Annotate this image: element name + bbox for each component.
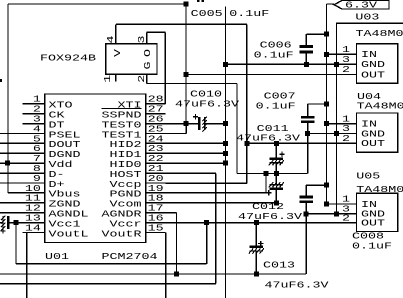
U04 pin IN name (361, 118, 377, 129)
osc pin 3 number (136, 35, 147, 43)
U04 pin 2 stub (337, 142, 357, 144)
svg-text:47uF6.3V: 47uF6.3V (236, 133, 300, 144)
capacitor C010 plate left (198, 117, 200, 130)
pin 11 name ZGND (49, 199, 81, 210)
wire U03 IN (327, 53, 357, 55)
pin 11 number (25, 193, 41, 204)
junction C006 gnd (304, 62, 309, 67)
wire bus2 (0, 273, 306, 275)
wire U05 IN (327, 203, 357, 205)
capacitor C011 label (257, 123, 289, 134)
capacitor C011 plate bottom hatched (269, 160, 284, 165)
junction C014 col16 (14, 220, 19, 225)
pin 1 number (33, 94, 41, 105)
wire C014 to pin13 (8, 222, 45, 224)
regulator U03 value TA48M03 (356, 28, 403, 39)
svg-text:0.1uF: 0.1uF (256, 101, 296, 112)
pin 19 name PGND (110, 189, 142, 200)
U04 pin 3 number (342, 123, 350, 134)
capacitor C005 value (229, 8, 269, 19)
pin 6 name DGND (49, 149, 81, 160)
junction top rail to 3.3V column (184, 2, 189, 7)
wire 6.3V column (326, 4, 328, 204)
wire top rail (8, 3, 186, 5)
wire TEST0 to C010 (165, 123, 199, 125)
wire osc VDD up-over (116, 23, 247, 25)
wire C011 bottom lead (275, 163, 277, 174)
wire osc VDD down col (246, 24, 248, 143)
regulator U05 refdes (356, 170, 380, 181)
capacitor C010 plate right hatched (202, 117, 206, 132)
U03 pin 2 stub (337, 74, 357, 76)
wire gnd entry from right edge (336, 22, 403, 24)
pin 27 number (148, 104, 164, 115)
pin 15 number (148, 222, 164, 233)
U05 pin 3 stub (337, 213, 357, 215)
wire to Vbus pin10 (8, 192, 45, 194)
pin 21 stub (146, 172, 166, 174)
pin 27 stub (146, 113, 166, 115)
capacitor C013 plus (258, 241, 263, 246)
U05 pin 1 number (342, 194, 350, 205)
wire C012 bottom lead (275, 189, 277, 203)
pin 9 number (33, 173, 41, 184)
wire DGND from left edge (0, 152, 23, 154)
svg-text:C013: C013 (263, 260, 295, 271)
osc pin 4 number (105, 35, 116, 43)
svg-text:TA48M03: TA48M03 (356, 28, 403, 39)
pin 24 name HID2 (110, 139, 142, 150)
junction 6.3V U03 IN (324, 52, 329, 57)
wire U04 gnd link down (307, 134, 309, 174)
junction 6.3V U04 IN (324, 121, 329, 126)
wire DOUT from left edge (0, 142, 23, 144)
pin 5 name DOUT (49, 139, 81, 150)
wire gnd column 336 (336, 23, 338, 214)
pin 17 number (148, 203, 164, 214)
osc pin 1 number (102, 74, 113, 82)
pin 20 number (148, 173, 164, 184)
pin 23 number (148, 143, 164, 154)
osc pin 2 number (136, 74, 147, 82)
junction C008 u05gnd (304, 211, 309, 216)
svg-text:OUT: OUT (361, 138, 385, 149)
wire bus3 (0, 283, 216, 285)
pin 10 name Vbus (49, 189, 81, 200)
capacitor C012 label (252, 201, 284, 212)
wire VoutL down (26, 233, 28, 298)
capacitor C012 value (238, 211, 302, 222)
wire 3.3V column (185, 4, 187, 124)
capacitor C005 remnant dots (197, 0, 204, 2)
pin 22 number (148, 153, 164, 164)
pin 25 stub (146, 133, 166, 135)
capacitor C012 plate bottom (270, 188, 284, 190)
U05 pin IN name (361, 199, 377, 210)
pin 12 number (25, 203, 41, 214)
pin 24 number (148, 133, 164, 144)
capacitor C012 plus (266, 190, 271, 195)
pin 2 name CK (49, 110, 65, 121)
wire bus1 (16, 263, 207, 265)
U04 pin OUT name (361, 138, 385, 149)
junction gnd U05 GND row (334, 211, 339, 216)
junction AGNDR bus2 (174, 272, 179, 277)
wire HID0 (165, 162, 225, 164)
U05 pin GND name (361, 209, 385, 220)
svg-text:47uF6.3V: 47uF6.3V (265, 280, 329, 291)
regulator U04 value TA48M0 (357, 101, 403, 112)
pin 9 name D+ (49, 179, 65, 190)
pin 15 name VoutR (102, 228, 142, 239)
junction C011 top (274, 141, 279, 146)
svg-text:PCM2704: PCM2704 (102, 251, 158, 262)
capacitor C007 value (256, 101, 296, 112)
pin 3 number (33, 114, 41, 125)
regulator U05 value TA48M0 (356, 184, 403, 195)
SSPND overline (102, 107, 142, 109)
pin 16 number (148, 213, 164, 224)
wire C012 top lead (275, 174, 277, 185)
capacitor C006 plates (300, 47, 314, 53)
junction 6.3V U05 IN (324, 202, 329, 207)
svg-text:U05: U05 (356, 170, 380, 181)
svg-text:1: 1 (102, 74, 113, 82)
junction Vccr C013 (254, 220, 259, 225)
junction 6.3V C007 (324, 102, 329, 107)
wire HID1 (165, 152, 225, 154)
junction 6.3V C006 (324, 32, 329, 37)
pin 17 stub (146, 212, 166, 214)
U03 pin 1 stub (337, 53, 357, 55)
pin 4 stub (23, 133, 45, 135)
wire col206 down (206, 223, 208, 264)
pin 22 stub (146, 162, 166, 164)
svg-text:2: 2 (136, 74, 147, 82)
wire C013 top lead (255, 223, 257, 247)
U01 value PCM2704 (102, 251, 158, 262)
pin 28 stub (146, 103, 166, 105)
pin 22 name HID0 (110, 159, 142, 170)
svg-text:4: 4 (105, 35, 116, 43)
svg-text:C005: C005 (191, 8, 223, 19)
svg-text:0.1uF: 0.1uF (229, 8, 269, 19)
pin 24 stub (146, 142, 166, 144)
pin 9 stub (23, 182, 45, 184)
pin 4 name PSEL (49, 129, 81, 140)
junction Vcom C012 (274, 200, 279, 205)
wire C005 column (225, 7, 227, 65)
pin 21 number (148, 163, 164, 174)
pin 25 name TEST1 (102, 129, 142, 140)
wire left vertical (7, 4, 9, 193)
U03 pin 1 number (342, 44, 350, 55)
wire Vccr rail (165, 222, 356, 224)
U03 pin OUT name (361, 69, 385, 80)
pin 20 stub (146, 182, 166, 184)
wire U05 GND row (306, 213, 356, 215)
wire Vccp right (165, 182, 246, 184)
U03 pin 3 number (342, 54, 350, 65)
regulator U05 body (357, 193, 398, 231)
pin 7 name Vdd (49, 159, 73, 170)
svg-text:TA48M0: TA48M0 (357, 101, 403, 112)
oscillator X1 body (106, 44, 157, 75)
pin 14 name VoutL (49, 228, 89, 239)
wire XTI down to pin28 (164, 32, 166, 103)
capacitor C008 plates (299, 197, 313, 202)
pin 21 name HOST (110, 169, 142, 180)
osc pin 3 stub (146, 32, 148, 43)
wire Vcom right (165, 202, 276, 204)
wire XTI over (147, 31, 166, 33)
capacitor C013 plate bottom hatched (249, 248, 264, 253)
junction gnd rail col336 (334, 62, 339, 67)
capacitor C007 label (264, 91, 296, 102)
wire col16 down (15, 223, 17, 264)
wire gnd rail row64 (226, 63, 357, 65)
capacitor C008 value (352, 241, 392, 252)
pin 18 number (148, 193, 164, 204)
wire HID2 (165, 142, 225, 144)
wire C010 right (205, 123, 226, 125)
wire C008 top lead (305, 185, 307, 197)
svg-text:0.1uF: 0.1uF (352, 241, 392, 252)
capacitor C006 label (260, 40, 292, 51)
U04 pin 3 stub (337, 133, 357, 135)
U04 pin 2 number (342, 133, 350, 144)
wire C014 left lead (0, 222, 3, 224)
wire Vdd from left edge (0, 162, 23, 164)
wire HOST right (165, 172, 216, 174)
pin 1 name XTO (49, 100, 73, 111)
junction row174 c012 col (274, 171, 279, 176)
pin 18 stub (146, 202, 166, 204)
IC U01 PCM2704 body (45, 94, 146, 243)
pin 6 number (33, 143, 41, 154)
pin 28 number (148, 94, 164, 105)
wire gnd row174 (237, 173, 308, 175)
wire C007 bottom lead (307, 122, 309, 134)
osc pin name O (142, 49, 153, 57)
wire C011 top lead (275, 143, 277, 158)
svg-text:TA48M0: TA48M0 (356, 184, 403, 195)
svg-text:2: 2 (342, 64, 350, 75)
pin 7 stub (23, 162, 45, 164)
capacitor C007 plates (301, 117, 315, 122)
svg-text:47uF6.3V: 47uF6.3V (175, 99, 239, 110)
wire C007 top lead (307, 104, 309, 117)
U04 pin 1 number (342, 113, 350, 124)
wire AGNDR right (165, 212, 176, 214)
capacitor C010 label (190, 89, 222, 100)
junction HID1 gnd (223, 151, 228, 156)
U04 pin 1 stub (337, 123, 357, 125)
wire U04 out rail (247, 142, 357, 144)
pin 8 stub (23, 172, 45, 174)
junction C008 6.3V col (324, 183, 329, 188)
wire C006 top (306, 33, 326, 35)
svg-text:2: 2 (342, 133, 350, 144)
wire Vccp up column (246, 143, 248, 183)
pin 11 stub (23, 202, 45, 204)
U01 refdes (45, 251, 69, 262)
capacitor C014 plate left hatched (1, 216, 5, 231)
wire PSEL from left edge (0, 133, 23, 135)
pin 8 name D- (49, 169, 65, 180)
wire C006 top lead (305, 34, 307, 46)
wire C008 top (306, 184, 326, 186)
wire flag to column (327, 3, 335, 5)
svg-text:0.1uF: 0.1uF (254, 50, 294, 61)
wire AGNDR down (176, 213, 178, 274)
svg-text:3: 3 (136, 35, 147, 43)
pin 2 number (33, 104, 41, 115)
svg-text:V: V (112, 49, 123, 57)
pin 23 stub (146, 152, 166, 154)
junction C010 gnd col (223, 121, 228, 126)
svg-text:U03: U03 (355, 12, 379, 23)
capacitor C013 value (265, 280, 329, 291)
regulator U03 body (357, 44, 398, 84)
pin 13 number (25, 213, 41, 224)
svg-text:FOX924B: FOX924B (40, 53, 96, 64)
pin 3 name DT (49, 119, 65, 130)
pin 20 name Vccp (110, 179, 142, 190)
wire U04 IN (327, 123, 357, 125)
pin 28 name XTI (118, 100, 142, 111)
wire C008 bottom lead (305, 202, 307, 274)
wire C013 bottom lead (255, 251, 257, 274)
capacitor C012 plate top hatched (269, 182, 284, 187)
wire C006 bottom lead (305, 52, 307, 64)
regulator U03 refdes (355, 12, 379, 23)
svg-text:6.3V: 6.3V (345, 0, 377, 10)
oscillator label FOX924B (40, 53, 96, 64)
pin 8 number (33, 163, 41, 174)
junction C010 left (184, 121, 189, 126)
junction C005 gnd row (223, 62, 228, 67)
capacitor C013 plate top (250, 246, 264, 248)
pin 4 number (33, 123, 41, 134)
osc pin 2 stub (146, 74, 148, 83)
capacitor C014 plus (0, 228, 5, 233)
U03 pin IN name (361, 49, 377, 60)
junction HID2 gnd (223, 141, 228, 146)
U03 pin 2 number (342, 64, 350, 75)
junction Vccr col206 (204, 220, 209, 225)
osc pin name G (142, 61, 153, 69)
svg-text:VoutL: VoutL (49, 228, 89, 239)
wire 3.3V rail row74 (186, 74, 357, 76)
wire C007 top (308, 103, 327, 105)
pin 3 stub (23, 123, 45, 125)
pin 12 stub (23, 212, 45, 214)
wire U04 GND row (308, 133, 357, 135)
pin 25 number (148, 123, 164, 134)
wire HOST down (215, 173, 217, 283)
regulator U04 body (357, 113, 398, 152)
capacitor C006 value (254, 50, 294, 61)
junction gnd U04 GND (334, 131, 339, 136)
wire D- from left edge (0, 172, 23, 174)
pin 14 stub (23, 232, 45, 234)
U05 pin OUT name (361, 217, 385, 228)
U05 pin 1 stub (337, 203, 357, 205)
wire TEST1 up (185, 124, 187, 134)
capacitor C011 plus (279, 152, 284, 157)
svg-text:O: O (142, 49, 153, 57)
capacitor C010 plus (193, 114, 198, 119)
wire TEST1 right (165, 133, 186, 135)
U05 pin 2 number (342, 212, 350, 223)
wire osc GND over (147, 83, 237, 85)
svg-text:VoutR: VoutR (102, 228, 142, 239)
pin 19 stub (146, 192, 166, 194)
capacitor C005 label (191, 8, 223, 19)
capacitor C008 label (352, 231, 384, 242)
pin 18 name Vcom (110, 199, 142, 210)
svg-text:OUT: OUT (361, 217, 385, 228)
regulator U04 refdes (357, 91, 381, 102)
pin 26 number (148, 114, 164, 125)
pin 14 number (25, 222, 41, 233)
pin 10 stub (23, 192, 45, 194)
pin 12 name AGNDL (49, 209, 89, 220)
pin 13 name Vcc1 (49, 218, 81, 229)
osc pin name V (112, 49, 123, 57)
svg-text:G: G (142, 61, 153, 69)
junction C007 gnd (305, 131, 310, 136)
wire ZGND from left edge (0, 202, 23, 204)
pin 26 stub (146, 123, 166, 125)
capacitor C011 value (236, 133, 300, 144)
wire D+ from left edge (0, 182, 23, 184)
pin 1 stub (23, 103, 45, 105)
pin 17 name AGNDR (102, 209, 142, 220)
U03 pin 3 stub (337, 63, 357, 65)
wire AGNDL from left edge (0, 212, 23, 214)
net flag 6.3V (334, 1, 389, 10)
svg-text:OUT: OUT (361, 69, 385, 80)
wire osc GND down col (236, 84, 238, 174)
osc pin 4 stub (115, 24, 117, 43)
osc pin 1 stub (115, 74, 117, 81)
pin 19 number (148, 183, 164, 194)
pin 5 number (33, 133, 41, 144)
junction osc VDD to U04 out rail (244, 141, 249, 146)
pin 5 stub (23, 142, 45, 144)
junction row174 pgnd col (264, 171, 269, 176)
svg-text:15: 15 (148, 222, 164, 233)
U04 pin GND name (361, 128, 385, 139)
U03 pin GND name (361, 59, 385, 70)
pin 10 number (25, 183, 41, 194)
pin 6 stub (23, 152, 45, 154)
junction Vdd rail (5, 161, 10, 166)
wire VoutR down (165, 233, 167, 298)
wire PGND right (165, 192, 266, 194)
wire gnd column 225 (225, 64, 227, 298)
junction 3.3V rail col (184, 72, 189, 77)
wire PGND up col (265, 174, 267, 193)
pin 15 stub (146, 232, 166, 234)
svg-text:14: 14 (25, 222, 41, 233)
capacitor C011 plate top (270, 158, 284, 160)
capacitor C010 value (175, 99, 239, 110)
svg-text:47uF6.3V: 47uF6.3V (238, 211, 302, 222)
capacitor C014 plate right (7, 216, 9, 229)
